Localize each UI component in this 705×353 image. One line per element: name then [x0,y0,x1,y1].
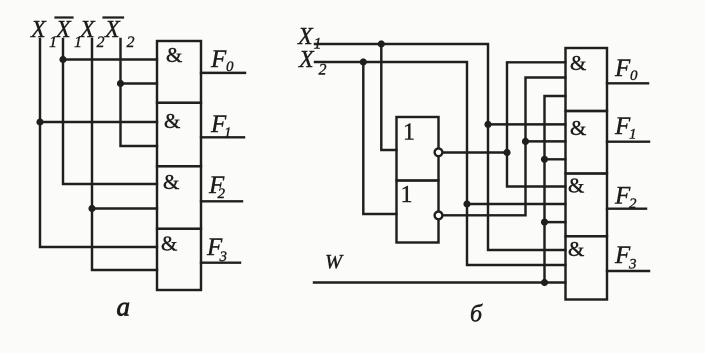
AND gate D1.1 (a) [157,41,201,103]
junction dot X1 / inverter branch (b) [378,40,385,47]
svg-text:1: 1 [401,182,413,208]
label F2 (b) [614,183,637,213]
wire X2 vertical down to AND D1.4 input 2 (a) [92,39,157,270]
junction dot X2 / D3.3 branch (b) [463,200,470,207]
wire NOT-X2 from bubble up to AND D3.1 input 2 (b) [443,78,565,216]
wire NOT-X2 vertical down to AND D1.2 input 2 (a) [121,39,158,146]
AND gate D3.3 (b) [566,174,608,237]
wire NOT-X1 vertical up to AND D3.1 input 1 (b) [507,62,566,152]
input label NOT-X1 (a) [55,17,82,51]
AND gate D1.2 (a) [157,103,201,167]
inverter D2.1 (b) [397,117,439,181]
label F1 (a) [210,111,232,141]
AND gate D1.4 (a) [157,229,201,290]
junction dot W / D3.2 branch (b) [541,156,548,163]
wire X1 vertical down to AND D1.4 input 1 (a) [40,39,157,247]
svg-text:2: 2 [629,196,637,212]
wire NOT-X1 branch to AND D1.1 input 1 (a) [63,58,157,60]
svg-text:0: 0 [226,59,234,75]
svg-text:2: 2 [218,186,226,202]
svg-text:б: б [470,302,483,328]
input label X2 (b) [298,47,327,79]
wire W branch to AND D3.3 input 3 (b) [545,221,566,223]
input label NOT-X2 (a) [104,17,135,51]
label F3 (a) [206,234,227,265]
wire output F3 (b) [607,270,649,272]
wire NOT-X1 from bubble to vertical (b) [443,151,507,153]
junction dot NOT-X2 / D1.1 branch (a) [117,80,124,87]
AND gate D3.1 (b) [566,48,608,111]
wire X2 branch down to inverter D2.2 input (b) [363,62,396,214]
junction dot NOT-X1 / D1.1 branch (a) [59,56,66,63]
junction dot W vertical (b) [541,279,548,286]
junction dot X1 / D1.2 branch (a) [36,118,43,125]
svg-text:2: 2 [127,34,135,51]
wire output F0 (a) [201,72,245,74]
junction dot X2 / D1.3 branch (a) [88,205,95,212]
svg-text:&: & [568,237,584,261]
wire W strobe line to AND D3.4 input 3 (b) [314,281,566,283]
wire NOT-X1 vertical down to AND D1.3 input 1 (a) [63,39,157,184]
wire X2 branch to AND D3.3 input 2 (b) [467,203,566,205]
svg-text:X: X [30,17,47,43]
svg-text:&: & [161,232,177,256]
wire NOT-X1 vertical down to AND D3.3 input 1 (b) [507,153,566,187]
wire output F1 (b) [607,140,649,142]
wire X1 branch to AND D3.2 input 1 (b) [488,123,566,125]
wire NOT-X2 branch to AND D3.2 input 2 (b) [526,140,566,142]
label F0 (b) [614,55,638,84]
wire X1 input line (b) [315,44,566,250]
junction dot NOT-X1 vertical (b) [503,149,510,156]
input label X2 (a) [79,17,105,51]
svg-text:2: 2 [97,34,105,51]
svg-text:1: 1 [629,127,637,143]
svg-text:1: 1 [403,120,415,146]
junction dot W / D3.3 branch (b) [541,219,548,226]
svg-text:W: W [325,251,344,273]
wire X1 branch down to inverter D2.1 input (b) [381,44,396,150]
AND gate D1.3 (a) [157,166,201,228]
AND gate D3.2 (b) [566,111,608,174]
svg-text:&: & [163,170,179,194]
wire output F0 (b) [607,82,648,84]
inverter D2.2 (b) [397,181,439,243]
svg-text:F: F [210,46,227,73]
input label X1 (b) [297,24,322,53]
svg-text:3: 3 [628,257,637,273]
wire X2 input line (b) [315,62,566,265]
wire output F3 (a) [201,261,240,263]
svg-text:2: 2 [319,62,327,79]
inverter D2.1 output bubble (b) [435,148,443,156]
wire output F2 (b) [607,207,646,209]
svg-text:a: a [117,292,131,322]
svg-text:&: & [570,51,586,75]
svg-text:1: 1 [224,125,232,141]
label F0 (a) [210,46,234,75]
junction dot X2 / inverter branch (b) [360,58,367,65]
svg-text:X: X [79,17,96,43]
wire output F2 (a) [201,200,242,202]
svg-text:&: & [164,109,180,133]
svg-text:3: 3 [219,249,228,265]
wire W branch to AND D3.2 input 3 (b) [545,158,566,160]
wire X2 branch to AND D1.3 input 2 (a) [92,207,157,209]
wire W vertical up to AND D3.1 input 3 (b) [545,96,566,283]
svg-text:&: & [570,116,586,140]
wire NOT-X2 branch to AND D1.1 input 2 (a) [121,82,158,84]
svg-text:F: F [614,55,631,82]
AND gate D3.4 (b) [566,236,608,299]
wire X1 branch to AND D1.2 input 1 (a) [40,121,157,123]
svg-text:0: 0 [630,68,638,84]
wire output F1 (a) [201,136,244,138]
label F1 (b) [614,113,637,143]
inverter D2.2 output bubble (b) [435,212,443,220]
svg-text:&: & [568,174,584,198]
junction dot X1 / D3.2 branch (b) [484,121,491,128]
input label X1 (a) [30,17,57,51]
junction dot NOT-X2 / D3.2 branch (b) [522,138,529,145]
svg-text:X: X [104,17,121,43]
label F3 (b) [614,242,637,273]
label F2 (a) [208,172,226,202]
svg-text:X: X [298,47,315,73]
svg-text:&: & [166,43,182,67]
